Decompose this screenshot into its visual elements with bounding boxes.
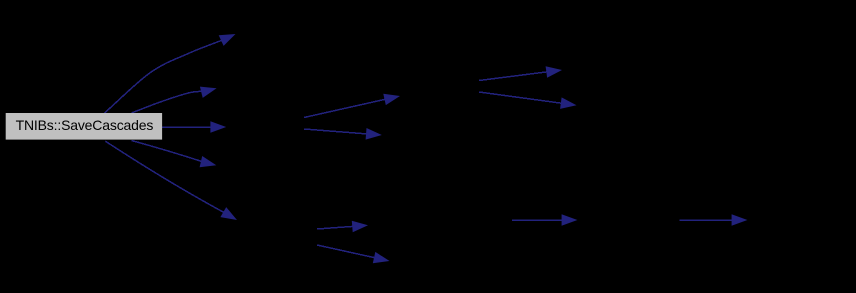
svg-text:TNIBs::SaveCascades: TNIBs::SaveCascades bbox=[16, 117, 154, 133]
